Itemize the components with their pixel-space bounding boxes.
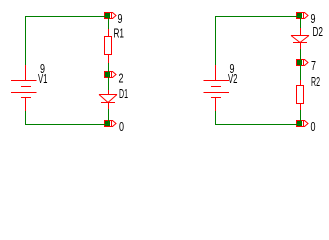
svg-text:D1: D1 (119, 86, 128, 101)
svg-text:9: 9 (118, 11, 123, 26)
svg-text:0: 0 (311, 119, 316, 134)
svg-text:D2: D2 (313, 24, 324, 39)
svg-text:R2: R2 (311, 74, 320, 89)
svg-text:V2: V2 (228, 71, 238, 86)
svg-text:V1: V1 (38, 71, 48, 86)
svg-text:7: 7 (311, 58, 316, 73)
svg-text:R1: R1 (114, 26, 125, 41)
svg-text:2: 2 (119, 71, 124, 86)
svg-text:0: 0 (119, 119, 124, 134)
